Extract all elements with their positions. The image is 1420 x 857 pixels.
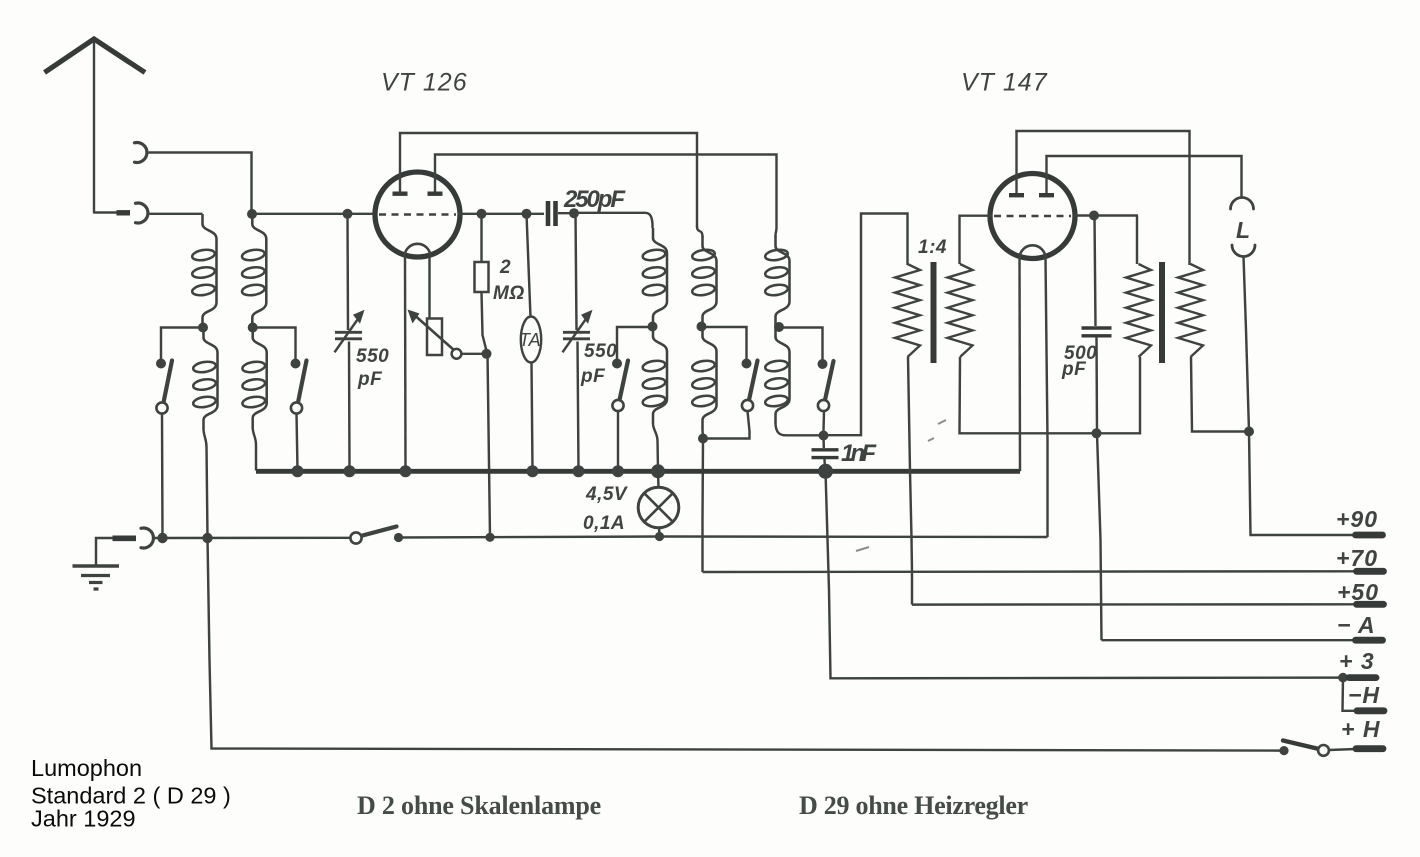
wire: R1 bottom to wiper node	[482, 292, 487, 351]
VT126 anode pin 2	[434, 156, 436, 192]
wire: -A run	[1102, 639, 1356, 641]
wire: VT147 filament right leg to lamp line	[1046, 258, 1048, 537]
coil L3 upper half (IF grid side)	[653, 228, 667, 327]
svg-text:+ H: + H	[1341, 716, 1380, 742]
wire: 1nF node down to plates and bus	[822, 436, 825, 449]
node: bus 1nF (thick)	[818, 464, 833, 479]
node: +3 junction	[1338, 673, 1348, 683]
node: tuning cap C1 top	[343, 209, 353, 219]
wire: VT147 pin1 run to output transformer	[1017, 131, 1190, 265]
wire: TA to bus	[532, 363, 533, 471]
jack socket (aerial alt input)	[135, 143, 147, 163]
terminal +3	[1349, 674, 1376, 681]
node: R1/wiper junction	[482, 349, 492, 359]
VT126 grid (dashed)	[379, 213, 456, 216]
node: earth R1 junction	[485, 533, 494, 542]
node: L4 tap	[697, 322, 707, 332]
wire: +3 to -H link	[1343, 678, 1360, 711]
wire: node right to transformer T1 riser	[824, 214, 908, 436]
switch S1	[156, 359, 166, 369]
wire: +H long run	[208, 538, 1282, 751]
svg-text:D 29 ohne Heizregler: D 29 ohne Heizregler	[799, 791, 1029, 820]
wire: T2 primary top	[1136, 216, 1138, 265]
pickup jack TA oval	[521, 317, 541, 363]
rheostat arrow	[416, 316, 456, 351]
wire: L4 tap to switch S4	[702, 327, 747, 360]
wire: VT147 grid right	[1073, 214, 1138, 216]
terminal +50	[1357, 601, 1384, 608]
capacitor C2 250pF plates	[546, 201, 551, 226]
node: +90 junction	[1244, 427, 1254, 437]
coil L2 lower half	[253, 328, 267, 429]
svg-text:Jahr 1929: Jahr 1929	[31, 806, 136, 832]
coil L3 lower half	[653, 327, 667, 425]
switch S7 (+H)	[1279, 746, 1288, 755]
speaker jack L top arc	[1231, 198, 1254, 209]
terminal +70	[1357, 568, 1384, 575]
svg-text:+ 3: + 3	[1339, 648, 1375, 674]
wire: TA feed	[527, 214, 531, 317]
node: L2 tap junction	[248, 323, 258, 333]
terminal -H	[1357, 707, 1384, 714]
wire: +50 run	[912, 603, 1357, 606]
svg-text:−H: −H	[1348, 682, 1380, 708]
wire: L1 tap to switch S1	[161, 328, 203, 361]
svg-text:VT 126: VT 126	[381, 69, 468, 97]
wire: VT147 filament left leg to bus end	[1018, 258, 1021, 471]
svg-text:pF: pF	[357, 369, 383, 390]
svg-text:1nF: 1nF	[841, 440, 877, 467]
rheostat body (filament)	[427, 319, 442, 356]
transformer T1 core	[931, 262, 937, 363]
transformer T1 1:4 primary winding	[895, 264, 920, 357]
wire: VT126 filament right leg to rheostat	[428, 257, 430, 319]
node: L5 tap	[774, 322, 784, 332]
wire: C2 to C3 node	[558, 212, 576, 214]
VT147 filament arc	[1020, 245, 1046, 258]
capacitor C5 1nF plates	[812, 448, 839, 451]
wire: VT126 filament left leg to bus	[404, 257, 407, 470]
wire: bus to lamp	[657, 471, 660, 487]
switch S5	[818, 359, 828, 369]
coil L5 lower half	[776, 327, 790, 424]
wire: +90 drop	[1249, 432, 1356, 536]
wire: L3 tap to switch S3	[617, 327, 653, 360]
variable capacitor C1 550pF	[335, 331, 362, 334]
svg-text:550: 550	[356, 346, 389, 367]
wire: junction down to lamp line	[488, 354, 491, 537]
node: -A junction	[1092, 428, 1102, 438]
wire: S3 to bus	[617, 411, 619, 470]
wire: C3 feed	[576, 213, 577, 330]
svg-text:pF: pF	[1061, 359, 1087, 380]
ground lead	[96, 538, 113, 566]
filament bus (thick)	[256, 469, 1020, 474]
coil L2 upper half (grid coil)	[252, 214, 266, 328]
jack socket (earth)	[141, 528, 153, 548]
wire: S1 to earth line	[161, 414, 164, 538]
wire: T2 secondary bottom to +90 node	[1191, 357, 1246, 432]
output transformer T2 secondary winding	[1178, 264, 1203, 357]
svg-text:D 2 ohne Skalenlampe: D 2 ohne Skalenlampe	[357, 791, 602, 820]
wire: -A drop	[1097, 433, 1102, 640]
wire: L2 bottom to bus left end	[253, 428, 256, 471]
svg-text:Lumophon: Lumophon	[31, 755, 142, 781]
node: R1 top	[477, 209, 487, 219]
node: 1nF top junction	[819, 431, 829, 441]
switch S2	[291, 359, 301, 369]
coil L4 upper half	[703, 236, 717, 327]
wire: T1 primary bottom to +50	[908, 357, 912, 605]
capacitor C4 500pF plates	[1082, 326, 1112, 329]
wire: S5 down to 1nF node	[822, 411, 825, 431]
terminal +90	[1356, 532, 1383, 539]
wire: C3 to bus	[578, 342, 579, 471]
wire: C1 to bus	[348, 342, 351, 471]
node: lamp bottom	[655, 532, 664, 541]
VT147 anode pin 2	[1045, 158, 1047, 194]
wire: L3 bottom to bus and lamp	[653, 424, 658, 470]
wire: +70 run	[703, 570, 1357, 573]
wire: L5 tap to switch S5	[779, 328, 823, 361]
speaker jack L bottom arc	[1232, 245, 1255, 257]
wire: L1 bottom down to +H run	[204, 430, 208, 538]
svg-text:+90: +90	[1336, 506, 1378, 532]
rheostat wiper circle	[452, 349, 462, 359]
jack socket (antenna input)	[136, 203, 148, 223]
svg-text:− A: − A	[1337, 612, 1376, 638]
plug bar at earth jack	[113, 535, 137, 541]
wire: VT126 pin1 to top run L1	[400, 133, 697, 227]
wire: -A junction to output primary bottom	[1097, 357, 1141, 433]
earth line left	[155, 537, 351, 540]
svg-text:pF: pF	[580, 366, 606, 387]
node: C3 top	[569, 208, 579, 218]
node: bus VT126 filament	[400, 465, 412, 477]
wire: L2 tap to switch S2	[253, 328, 296, 361]
svg-text:MΩ: MΩ	[493, 283, 525, 304]
node: bus TA	[527, 465, 539, 477]
wire: antenna lead-in vertical	[93, 39, 95, 214]
transformer T1 secondary winding	[948, 264, 973, 357]
transformer T2 core	[1159, 262, 1165, 363]
ground symbol	[73, 564, 120, 568]
VT147 grid (dashed)	[994, 215, 1071, 218]
antenna symbol	[45, 39, 146, 73]
transformer T1 secondary top to VT147 grid	[960, 216, 993, 264]
earth/lamp line right	[399, 537, 1048, 538]
triode VT147 envelope	[990, 174, 1075, 259]
node: TA top	[522, 209, 532, 219]
node: L1 tap junction	[198, 323, 208, 333]
wire: grid line right of VT126	[458, 213, 544, 215]
wire: grid line to VT126	[252, 213, 377, 215]
coil L1 upper half (antenna primary)	[203, 214, 217, 328]
speck	[856, 420, 946, 551]
node: grid wire left junction	[247, 209, 257, 219]
svg-text:0,1A: 0,1A	[583, 513, 625, 534]
wire: wiper to R1 line	[462, 353, 483, 355]
svg-text:+50: +50	[1337, 579, 1379, 605]
node: bus lamp/L3	[651, 464, 665, 478]
wire: VT147 pin2 run to speaker jack	[1047, 156, 1242, 199]
svg-text:VT 147: VT 147	[961, 69, 1048, 97]
wire: lamp to earth line	[658, 528, 661, 534]
node: bus C1	[344, 465, 356, 477]
wire: R1 feed	[480, 214, 482, 262]
svg-text:2: 2	[499, 257, 511, 278]
wire: speaker jack to +90 node	[1244, 257, 1250, 432]
variable capacitor C3 550pF	[563, 331, 590, 334]
wire: VT126 pin2 top run L2	[435, 155, 777, 227]
capacitor C4 500pF feed	[1095, 216, 1096, 327]
coil L1 lower half	[204, 328, 218, 431]
wire: upper jack to grid node	[149, 153, 252, 213]
wire: C4 to -A node	[1095, 337, 1098, 432]
switch S6 (filament on/off)	[350, 532, 361, 543]
node: C4 top junction	[1089, 211, 1099, 221]
wire: node to coil L3 top	[574, 213, 653, 228]
node: earth L1/+H	[202, 533, 212, 543]
node: bus S3	[612, 465, 624, 477]
dial lamp 4.5V 0.1A	[638, 487, 679, 528]
svg-text:550: 550	[584, 341, 617, 362]
wire: run into coil L5	[776, 226, 777, 237]
wire: L4 bottom to junction	[701, 430, 704, 439]
node: bus S2	[292, 465, 304, 477]
resistor R1 2M body	[475, 262, 489, 292]
wire: top run into coil L4	[697, 226, 703, 237]
wire: L5 bottom to 1nF node	[776, 424, 822, 435]
wire: +3 riser from bus	[826, 471, 1344, 678]
coil L5 upper half	[776, 236, 790, 327]
wire: antenna jack to coil L1 top	[150, 213, 203, 215]
plug bar at antenna jack	[117, 210, 131, 215]
wire: T1 secondary bottom to -A node	[960, 357, 1093, 433]
triode VT126 envelope	[375, 172, 460, 257]
svg-text:L: L	[1236, 217, 1251, 243]
wire: S4 down to L4 node	[704, 411, 750, 439]
node: L3 tap	[648, 322, 658, 332]
wire: S2 to filament bus	[297, 414, 298, 471]
svg-text:1:4: 1:4	[918, 237, 947, 258]
wire: antenna to earth jack plug	[94, 211, 117, 213]
VT126 anode pin 1	[399, 135, 401, 192]
wire: C1 top feed	[346, 214, 349, 330]
switch S3	[612, 359, 622, 369]
node: bus C3	[573, 465, 585, 477]
coil L4 lower half	[703, 327, 717, 431]
output transformer T2 primary winding	[1126, 264, 1151, 357]
svg-text:TA: TA	[519, 330, 541, 350]
VT126 filament arc	[405, 244, 431, 257]
wire: junction down crossing bus to +70 corner	[701, 439, 704, 573]
node: earth S1	[157, 533, 167, 543]
switch S4	[742, 359, 752, 369]
svg-text:4,5V: 4,5V	[585, 484, 628, 505]
terminal -A	[1356, 637, 1383, 644]
terminal +H	[1356, 745, 1383, 752]
svg-text:+70: +70	[1336, 545, 1378, 571]
VT147 anode pin 1	[1015, 133, 1017, 194]
wire: S7 to +H terminal	[1329, 749, 1356, 750]
node: +70 takeoff junction	[698, 434, 708, 444]
